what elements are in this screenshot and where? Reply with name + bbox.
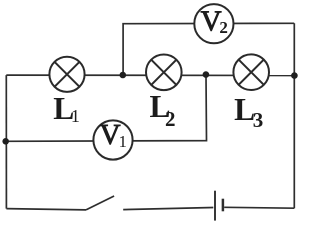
battery long plate: [214, 191, 216, 221]
switch blade: [86, 196, 114, 210]
wire top branch: [123, 23, 294, 74]
label L2: [150, 89, 176, 131]
wire switch to battery: [123, 208, 213, 210]
wire bottom left: [6, 209, 86, 210]
voltmeter V1: [93, 119, 132, 160]
node right: [291, 72, 298, 79]
svg-text:1: 1: [119, 132, 128, 151]
label L1: [53, 91, 80, 126]
wire battery to right corner: [224, 206, 294, 209]
svg-text:2: 2: [165, 107, 176, 131]
wire left vertical: [5, 75, 7, 209]
battery short plate: [222, 199, 225, 212]
svg-text:1: 1: [71, 106, 80, 126]
svg-text:3: 3: [253, 108, 263, 132]
node junction top branch: [120, 72, 127, 79]
svg-text:2: 2: [219, 18, 228, 37]
wire V1 branch: [6, 75, 207, 141]
lamp L3: [233, 54, 269, 90]
wire right vertical: [293, 23, 295, 208]
node left V1 branch: [2, 138, 9, 145]
wire lamp row: [6, 74, 294, 76]
node junction V1 branch: [203, 71, 210, 78]
lamp L1: [49, 57, 84, 92]
svg-text:V: V: [100, 119, 121, 151]
voltmeter V2: [194, 4, 233, 43]
label L3: [234, 92, 263, 132]
lamp L2: [146, 55, 182, 91]
